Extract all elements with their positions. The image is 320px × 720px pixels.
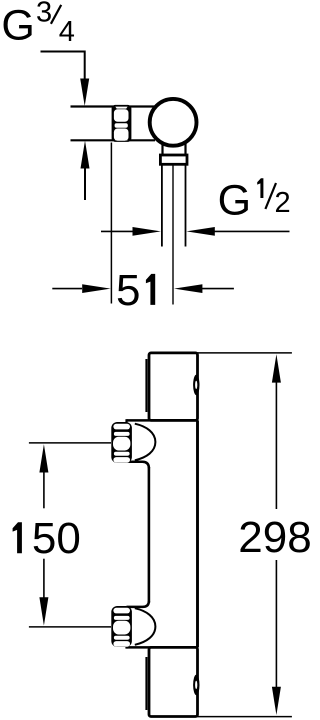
- body middle section: [149, 420, 198, 647]
- svg-text:50: 50: [32, 514, 81, 563]
- arrow up at pipe bottom: [81, 141, 90, 201]
- svg-text:2: 2: [275, 187, 291, 219]
- neck below ball: [163, 143, 186, 155]
- thermostat body: top block: [146, 353, 197, 421]
- hex nut G 3/4 (top view): [112, 105, 132, 142]
- 51 dimension: [52, 143, 234, 315]
- svg-text:5: 5: [116, 266, 140, 315]
- svg-text:3: 3: [36, 0, 52, 29]
- 150 dimension line with arrows: [13, 444, 81, 625]
- lower union boss: [127, 601, 198, 649]
- outlet pipe G 1/2: [162, 165, 186, 247]
- G 1/2 dimension arrows: [101, 227, 290, 236]
- lower union dome: [135, 608, 156, 645]
- 298 dimension line with arrows: [238, 354, 311, 715]
- flange: [160, 155, 187, 164]
- svg-text:G: G: [1, 2, 34, 50]
- upper union dome: [135, 424, 156, 461]
- screw cap bottom (side ellipse): [193, 675, 199, 696]
- hex nut upper union: [111, 422, 132, 463]
- inlet pipe stub (top view): [71, 107, 114, 141]
- label G 3/4: [1, 0, 75, 50]
- svg-text:4: 4: [59, 16, 75, 48]
- 298 dimension extension lines: [195, 353, 292, 717]
- hex nut lower union: [111, 606, 132, 647]
- svg-text:G: G: [218, 176, 251, 224]
- leader from G 3/4 with arrow: [41, 52, 90, 107]
- 150 dimension extension lines: [29, 443, 111, 627]
- pipe axis centre line: [172, 165, 174, 305]
- ball elbow circle: [150, 99, 197, 146]
- union cylinder between nut and ball: [130, 107, 155, 141]
- body bottom block: [146, 647, 197, 716]
- upper union boss: [127, 419, 198, 468]
- screw cap top (side ellipse): [193, 375, 199, 396]
- svg-text:298: 298: [238, 513, 310, 562]
- label G 1/2: [218, 176, 291, 224]
